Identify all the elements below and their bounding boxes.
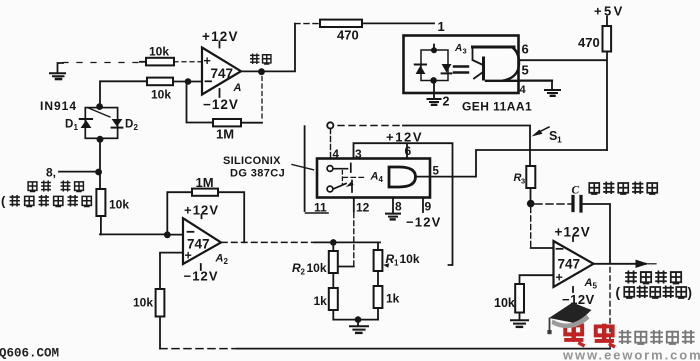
svg-text:12: 12 [356,201,370,215]
svg-text:8,: 8, [46,166,56,180]
svg-text:+: + [556,271,563,285]
svg-text:4: 4 [379,175,384,184]
svg-text:6: 6 [522,42,529,57]
svg-text:SILICONIX: SILICONIX [223,155,281,167]
svg-text:+12V: +12V [555,225,591,240]
svg-text:8: 8 [395,200,402,214]
svg-text:www.eeworm.com: www.eeworm.com [562,348,700,361]
svg-text:C: C [572,185,580,197]
svg-text:(: ( [1,194,6,209]
svg-text:10k: 10k [133,296,153,310]
svg-text:1k: 1k [314,294,328,308]
svg-text:A: A [233,82,242,94]
svg-text:(: ( [616,285,621,300]
svg-text:+12V: +12V [202,29,239,44]
svg-text:−12V: −12V [184,269,219,284]
svg-text:1: 1 [74,123,79,132]
svg-text:1: 1 [394,259,399,268]
svg-text:4: 4 [520,84,527,96]
svg-text:GEH 11AA1: GEH 11AA1 [462,100,532,114]
svg-text:747: 747 [211,66,234,81]
svg-text:−12V: −12V [406,215,442,230]
svg-text:IN914: IN914 [40,99,77,113]
svg-text:+5V: +5V [594,4,625,19]
svg-text:3: 3 [463,47,467,56]
svg-text:1M: 1M [216,127,234,142]
svg-text:A: A [454,43,462,54]
svg-text:A: A [215,253,224,265]
svg-text:11: 11 [314,201,327,215]
svg-text:747: 747 [187,237,210,252]
svg-text:2: 2 [224,257,229,266]
svg-text:747: 747 [558,257,581,272]
svg-text:10k: 10k [149,45,169,59]
svg-text:+12V: +12V [184,203,219,218]
svg-text:−12V: −12V [203,97,239,112]
svg-text:5: 5 [433,166,440,178]
svg-text:10k: 10k [307,261,327,275]
svg-text:Q606.COM: Q606.COM [0,347,59,361]
svg-text:1k: 1k [386,292,400,306]
svg-text:A: A [584,277,593,289]
svg-text:10k: 10k [400,252,420,266]
svg-text:10k: 10k [494,296,515,310]
svg-text:DG 387CJ: DG 387CJ [230,168,285,180]
svg-text:−12V: −12V [562,292,595,307]
svg-text:5: 5 [593,282,598,291]
svg-text:2: 2 [134,123,139,132]
svg-text:9: 9 [425,200,432,214]
svg-text:2: 2 [301,268,306,277]
svg-text:1: 1 [557,135,562,145]
svg-text:4: 4 [333,149,340,161]
svg-text:+12V: +12V [386,130,423,145]
svg-text:1M: 1M [196,175,214,190]
svg-text:10k: 10k [109,198,129,212]
svg-text:+: + [204,54,211,68]
svg-text:470: 470 [578,35,600,50]
svg-text:470: 470 [337,28,359,43]
svg-text:3: 3 [521,177,525,186]
svg-text:3: 3 [355,147,362,161]
svg-text:2: 2 [443,95,450,109]
svg-text:A: A [370,171,379,183]
svg-text:5: 5 [522,63,529,78]
svg-text:1: 1 [438,19,445,34]
svg-text:D: D [125,119,133,131]
svg-text:10k: 10k [151,88,171,102]
svg-text:6: 6 [405,144,412,158]
svg-text:D: D [65,119,73,131]
svg-text:): ) [688,285,693,300]
